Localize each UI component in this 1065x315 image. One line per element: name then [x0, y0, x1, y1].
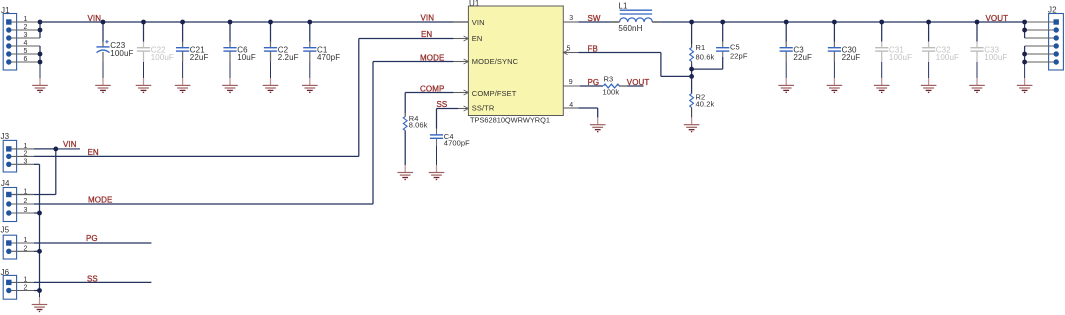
junction J1 pin2 — [38, 28, 43, 33]
J2 pin 2 wire — [1025, 29, 1054, 31]
svg-text:1: 1 — [24, 16, 28, 23]
svg-text:PG: PG — [86, 234, 98, 243]
svg-text:L1: L1 — [618, 1, 628, 10]
connector J3 — [1, 132, 17, 172]
ground R4 — [397, 165, 413, 179]
junction J1 pin1 — [38, 20, 43, 25]
wire ground chain J3-J6 — [39, 164, 41, 290]
connector J6 — [1, 268, 17, 299]
J2 pin 6 wire — [1025, 61, 1054, 63]
ground J3-J6 chain — [32, 297, 48, 311]
ground of C33 — [969, 62, 985, 92]
svg-text:J4: J4 — [1, 179, 10, 188]
junction VIN/C6 — [228, 20, 233, 25]
wire VIN rail — [40, 21, 468, 23]
svg-text:3: 3 — [24, 32, 28, 39]
ground of C31 — [874, 62, 890, 92]
ground of C3 — [778, 62, 794, 92]
wire PG to R3 — [580, 85, 603, 87]
wire VIN J3 dangling stub — [56, 148, 80, 150]
svg-text:100k: 100k — [603, 88, 620, 97]
resistor R3 100k — [603, 75, 620, 97]
wire R3 to VOUT label — [619, 85, 644, 87]
ground J1 — [32, 78, 48, 92]
J1 pin 1 wire — [12, 16, 41, 23]
svg-text:COMP: COMP — [420, 84, 444, 93]
J3 pin 1 wire (VIN) — [12, 143, 56, 150]
svg-text:3: 3 — [24, 158, 28, 165]
svg-text:SS: SS — [437, 100, 448, 109]
wire VOUT rail — [660, 21, 1025, 23]
svg-text:22pF: 22pF — [730, 52, 748, 61]
J1 junction wires — [39, 22, 41, 78]
J1 pin 6 wire — [12, 56, 41, 63]
svg-text:1: 1 — [24, 237, 28, 244]
capacitor C6 — [223, 22, 255, 62]
J2 pin 3 wire — [1025, 37, 1054, 39]
capacitor C4 4700pF — [430, 129, 470, 166]
junction VIN/C21 — [180, 20, 185, 25]
capacitor C3 — [780, 22, 812, 62]
U1 pin MODE/SYNC arrow — [464, 59, 469, 64]
svg-text:EN: EN — [88, 148, 99, 157]
junction J5 pin2 / chain — [37, 249, 42, 254]
J3 pin 2 wire (EN) — [12, 150, 35, 157]
U1 pin MODE/SYNC stub — [453, 61, 468, 63]
svg-text:8.06k: 8.06k — [409, 121, 428, 130]
resistor R2 40.2k — [690, 76, 715, 117]
connector J4 — [1, 179, 17, 221]
U1 pin 3 SW stub — [563, 15, 578, 22]
capacitor C23 (polarized) — [96, 22, 133, 62]
resistor R4 8.06k — [403, 113, 427, 165]
junction VIN/C23 — [101, 20, 106, 25]
U1 pin SS/TR arrow — [464, 106, 469, 111]
ground of C22 — [136, 62, 152, 92]
svg-text:VOUT: VOUT — [627, 78, 650, 87]
svg-text:2: 2 — [24, 285, 28, 292]
svg-text:100uF: 100uF — [984, 53, 1007, 62]
svg-text:40.2k: 40.2k — [696, 100, 715, 109]
svg-text:100uF: 100uF — [889, 53, 912, 62]
svg-text:EN: EN — [421, 30, 432, 39]
wire SS — [437, 109, 459, 129]
ground of C23 — [95, 62, 111, 92]
J1 pin 3 wire — [12, 32, 41, 39]
ground of C32 — [921, 62, 937, 92]
connector J5 — [1, 226, 17, 259]
junction VOUT/C32 — [926, 20, 931, 25]
svg-text:VIN: VIN — [63, 140, 77, 149]
capacitor C5 22pF — [692, 22, 748, 69]
wire COMP — [405, 93, 453, 114]
ground of C21 — [175, 62, 191, 92]
svg-text:10uF: 10uF — [237, 53, 256, 62]
capacitor C2 — [264, 22, 299, 62]
svg-text:2: 2 — [24, 198, 28, 205]
junction J3 pin1 VIN — [53, 147, 58, 152]
svg-text:4: 4 — [24, 40, 28, 47]
J2 junction wires — [1024, 22, 1026, 78]
resistor R1 80.6k — [690, 22, 715, 76]
junction J2 pin5 — [1022, 52, 1027, 57]
capacitor C31 — [875, 22, 912, 62]
svg-text:MODE: MODE — [88, 196, 112, 205]
svg-text:J5: J5 — [1, 226, 10, 235]
junction VIN/C22 — [141, 20, 146, 25]
ground R2 — [684, 117, 700, 131]
svg-text:9: 9 — [569, 79, 573, 86]
J2 pin 5 wire — [1025, 53, 1054, 55]
svg-text:560nH: 560nH — [618, 24, 642, 33]
capacitor C21 — [176, 22, 208, 62]
wire chain to ground — [39, 291, 41, 298]
svg-text:R3: R3 — [604, 75, 614, 84]
ground of C30 — [827, 62, 843, 92]
wire VIN J3 to J4 — [55, 149, 57, 195]
svg-text:22uF: 22uF — [190, 53, 209, 62]
svg-text:100uF: 100uF — [936, 53, 959, 62]
junction VOUT/C31 — [879, 20, 884, 25]
ground C4 — [429, 165, 445, 179]
svg-text:4: 4 — [569, 102, 573, 109]
J6 pin 2 wire — [12, 285, 40, 292]
U1 pin 4 stub — [563, 102, 578, 109]
svg-text:100uF: 100uF — [110, 49, 133, 58]
svg-text:3: 3 — [569, 15, 573, 22]
svg-text:J3: J3 — [1, 132, 10, 141]
ground J2 — [1017, 78, 1033, 92]
junction VIN/C2 — [268, 20, 273, 25]
svg-text:2: 2 — [24, 245, 28, 252]
svg-text:VIN: VIN — [88, 14, 102, 23]
svg-text:COMP/FSET: COMP/FSET — [472, 89, 517, 98]
wire U1 pin4 to ground — [578, 108, 597, 118]
junction J2 pin2 — [1022, 28, 1027, 33]
capacitor C32 — [922, 22, 959, 62]
J1 pin 4 wire — [12, 40, 41, 47]
svg-text:2: 2 — [24, 24, 28, 31]
capacitor C22 — [137, 22, 174, 62]
junction R1/R2/FB — [689, 74, 694, 79]
svg-text:470pF: 470pF — [317, 53, 340, 62]
J1 pin 5 wire — [12, 48, 41, 55]
U1 pin COMP/FSET arrow — [464, 90, 469, 95]
U1 pin 5 FB stub — [563, 46, 578, 55]
svg-text:SS/TR: SS/TR — [472, 103, 495, 112]
svg-text:C5: C5 — [730, 43, 740, 52]
junction VOUT/C33 — [975, 20, 980, 25]
J2 pin 1 wire — [1025, 21, 1054, 23]
ground of C6 — [222, 62, 238, 92]
ground of C2 — [263, 62, 279, 92]
svg-text:EN: EN — [472, 34, 483, 43]
junction J2 pin1 — [1022, 20, 1027, 25]
svg-text:VIN: VIN — [421, 14, 435, 23]
J4 pin 3 wire — [12, 207, 40, 214]
svg-text:4700pF: 4700pF — [444, 139, 470, 148]
J5 pin 1 wire (PG) — [12, 237, 152, 244]
svg-text:R1: R1 — [696, 43, 706, 52]
junction VOUT/C30 — [832, 20, 837, 25]
J4 pin 1 wire (VIN) — [12, 189, 56, 196]
svg-text:MODE: MODE — [420, 53, 444, 62]
connector J1 — [1, 6, 17, 70]
junction VOUT/C5 — [720, 20, 725, 25]
svg-text:1: 1 — [24, 189, 28, 196]
junction VOUT/R1 — [689, 20, 694, 25]
svg-text:5: 5 — [24, 48, 28, 55]
capacitor C33 — [970, 22, 1007, 62]
svg-text:100uF: 100uF — [151, 53, 174, 62]
junction VOUT/C3 — [784, 20, 789, 25]
junction J6 pin2 / chain — [37, 288, 42, 293]
junction R1/C5 — [689, 67, 694, 72]
capacitor C1 — [303, 22, 340, 62]
J4 pin 2 wire (MODE) — [12, 198, 35, 205]
junction J2 pin6 — [1022, 60, 1027, 65]
svg-text:22uF: 22uF — [842, 53, 861, 62]
J2 pin 4 wire — [1025, 45, 1054, 47]
wire SW to L1 — [578, 21, 611, 23]
svg-text:1: 1 — [24, 143, 28, 150]
wire MODE (J4 to U1) — [34, 62, 453, 205]
svg-text:22uF: 22uF — [793, 53, 812, 62]
svg-text:VIN: VIN — [472, 18, 485, 27]
U1 pin SS/TR stub — [458, 108, 468, 110]
svg-text:TPS62810QWRWYRQ1: TPS62810QWRWYRQ1 — [470, 115, 550, 124]
svg-text:1: 1 — [24, 276, 28, 283]
connector J2 — [1048, 6, 1063, 70]
svg-text:6: 6 — [24, 56, 28, 63]
svg-text:VOUT: VOUT — [986, 14, 1009, 23]
inductor L1 560nH — [611, 1, 659, 33]
junction J1 pin5 — [38, 52, 43, 57]
svg-text:SS: SS — [87, 275, 98, 284]
svg-text:80.6k: 80.6k — [696, 52, 715, 61]
IC U1 TPS62810QWRWYRQ1 — [468, 0, 563, 124]
U1 pin EN arrow — [464, 36, 469, 41]
J5 pin 2 wire — [12, 245, 40, 252]
wire EN (J3 to U1) — [34, 39, 453, 157]
svg-text:MODE/SYNC: MODE/SYNC — [472, 57, 519, 66]
junction J4 pin3 / chain — [37, 211, 42, 216]
ground of C1 — [302, 62, 318, 92]
U1 pin VIN stub — [453, 21, 468, 23]
ground U1 pin4 — [590, 117, 606, 131]
svg-text:2.2uF: 2.2uF — [278, 53, 299, 62]
J3 pin 3 wire — [12, 158, 40, 165]
J6 pin 1 wire (SS) — [12, 276, 152, 283]
U1 pin EN stub — [453, 38, 468, 40]
svg-text:2: 2 — [24, 150, 28, 157]
capacitor C30 — [828, 22, 860, 62]
junction J1 pin6 — [38, 60, 43, 65]
U1 pin COMP/FSET stub — [453, 92, 468, 94]
junction VIN/C1 — [307, 20, 312, 25]
wire FB — [578, 53, 691, 77]
J1 pin 2 wire — [12, 24, 41, 31]
U1 pin 9 PG stub — [563, 79, 579, 86]
svg-text:3: 3 — [24, 207, 28, 214]
svg-text:5: 5 — [567, 46, 571, 53]
